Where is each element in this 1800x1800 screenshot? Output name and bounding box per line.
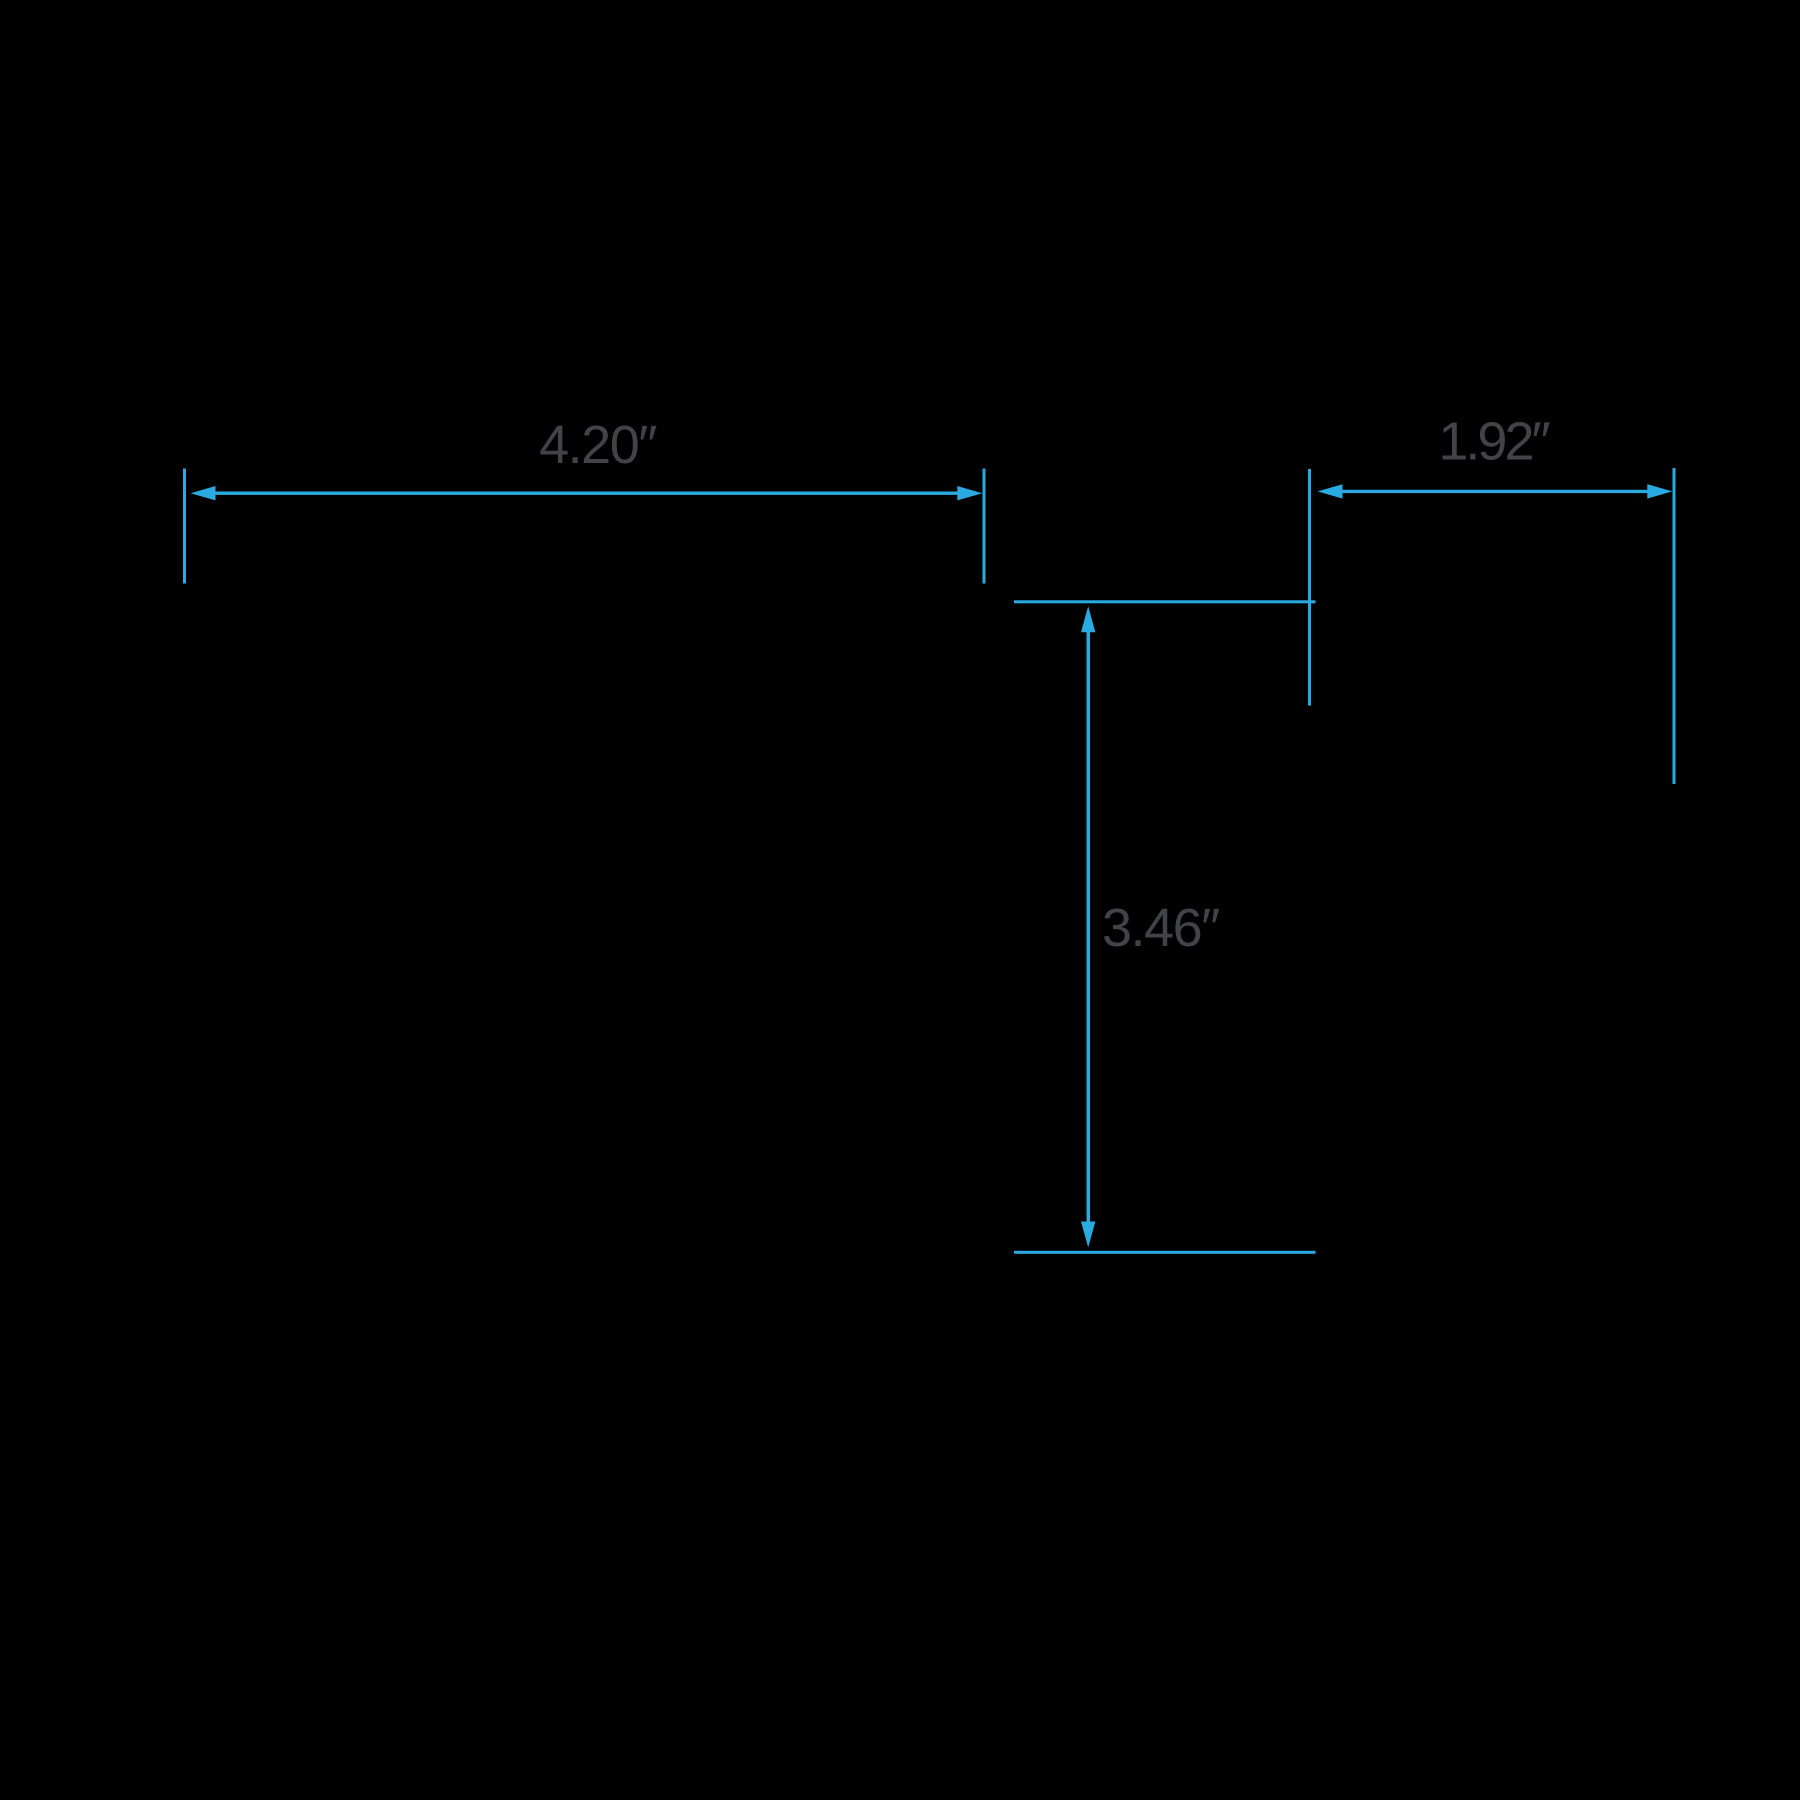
reference line top of 3.46 dimension — [1014, 600, 1316, 603]
arrowhead left 4.20 — [191, 486, 216, 500]
arrowhead top 3.46 — [1081, 606, 1095, 632]
witness line right of 4.20 dimension — [983, 469, 986, 584]
arrowhead bottom 3.46 — [1081, 1222, 1095, 1248]
dimension line shaft 4.20 — [214, 492, 959, 495]
arrowhead right 1.92 — [1647, 484, 1672, 498]
arrowhead left 1.92 — [1318, 484, 1343, 498]
svg-text:4.20″: 4.20″ — [539, 415, 657, 475]
witness line right of 1.92 dimension — [1673, 468, 1676, 784]
witness line left of 1.92 dimension — [1308, 469, 1311, 706]
reference line bottom of 3.46 dimension — [1014, 1251, 1316, 1254]
dimension line shaft 1.92 — [1341, 490, 1649, 493]
arrowhead right 4.20 — [957, 486, 982, 500]
svg-text:3.46″: 3.46″ — [1102, 898, 1220, 958]
svg-text:1.92″: 1.92″ — [1438, 412, 1550, 472]
dimension line shaft 3.46 — [1087, 631, 1091, 1223]
witness line left of 4.20 dimension — [183, 469, 186, 584]
